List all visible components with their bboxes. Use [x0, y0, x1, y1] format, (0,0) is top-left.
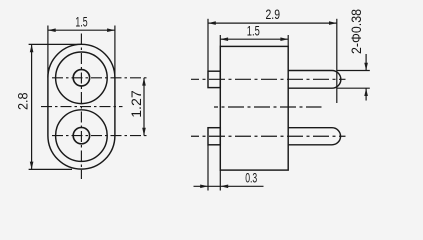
arrowhead dim 2.9 right end [329, 21, 337, 25]
arrowhead dim 1.5 left view, right end [107, 28, 115, 32]
dim 2.9 extension line right [336, 19, 338, 103]
right view: top-left pin tail tab [208, 71, 220, 87]
arrowhead dim 1.27 bottom end [142, 128, 146, 136]
right view: top pin with rounded tip [288, 71, 341, 89]
horizontal mid symmetry centerline right view [214, 106, 322, 108]
dim 1.5 (left view) extension line left [47, 26, 49, 78]
dim 1.5 (left view) dimension line [48, 29, 115, 31]
dim 1.5 (right view) dimension line [220, 38, 288, 40]
bottom pin centerline [191, 135, 346, 137]
bottom hole inner circle [73, 127, 89, 143]
arrowhead dim 1.5 right view, right end [280, 37, 288, 41]
dim 0.3 extension line left (pin tail edge) [207, 145, 209, 191]
svg-text:2.8: 2.8 [14, 92, 30, 110]
svg-text:2.9: 2.9 [266, 6, 281, 22]
svg-text:1.5: 1.5 [75, 13, 87, 29]
arrowhead dim 0.3 left (points right) [200, 185, 208, 189]
dim 2.8 extension line top [29, 43, 82, 45]
dim 2.8 dimension line [31, 44, 33, 169]
arrowhead dim Φ0.38 lower (points up) [364, 88, 368, 96]
dim 2-Φ0.38 dimension line lower segment [365, 88, 367, 100]
arrowhead dim 2.8 top end [30, 44, 34, 52]
arrowhead dim 2.9 left end [208, 21, 216, 25]
vertical centerline left view [80, 34, 82, 180]
top hole inner circle [73, 70, 89, 86]
right view: bottom-left pin tail tab [208, 128, 220, 145]
dim 2-Φ0.38 extension line lower (pin bottom edge) [337, 87, 370, 89]
svg-text:1.5: 1.5 [247, 23, 260, 39]
arrowhead dim 1.5 left view, left end [48, 28, 56, 32]
top pin centerline [191, 78, 346, 80]
dim 1.27 dimension line [143, 78, 145, 136]
dim 2.8 extension line bottom [29, 168, 72, 170]
bottom hole outer circle [56, 110, 108, 162]
arrowhead dim 0.3 right (points left) [220, 185, 228, 189]
arrowhead dim Φ0.38 upper (points down) [364, 63, 368, 71]
dim 0.3 extension line right (body edge) [219, 170, 221, 190]
left view: stadium body outline [48, 44, 115, 169]
dim 1.5 (right view) extension line left stub [219, 35, 221, 46]
horizontal centerline top hole [52, 77, 149, 79]
dim 2.9 dimension line [208, 22, 337, 24]
arrowhead dim 1.27 top end [142, 78, 146, 86]
dim 2.9 extension line left [207, 19, 209, 71]
dim 0.3 dimension line left tail [194, 185, 264, 187]
dim 2-Φ0.38 extension line upper (pin top edge) [337, 70, 370, 72]
horizontal centerline bottom hole [52, 135, 149, 137]
dim 2-Φ0.38 dimension line upper segment [365, 54, 367, 71]
dim 1.5 (right view) extension line left is body edge; extension line right [287, 35, 289, 46]
top hole outer circle [56, 52, 108, 104]
right view: bottom pin with rounded tip [288, 128, 340, 145]
arrowhead dim 2.8 bottom end [30, 162, 34, 170]
svg-text:1.27: 1.27 [128, 90, 144, 118]
svg-text:0.3: 0.3 [245, 170, 257, 186]
arrowhead dim 1.5 right view, left end [220, 37, 228, 41]
svg-text:2-Φ0.38: 2-Φ0.38 [348, 9, 364, 54]
right view: body rectangle [220, 46, 288, 170]
horizontal mid symmetry centerline left view [41, 106, 123, 108]
dim 1.5 (left view) extension line right [114, 26, 116, 78]
